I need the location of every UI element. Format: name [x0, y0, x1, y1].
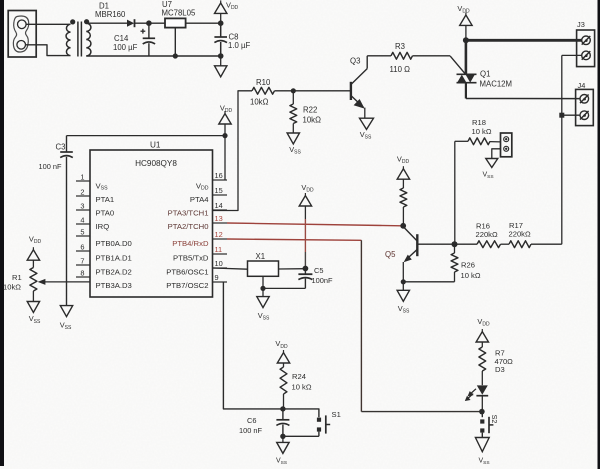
svg-text:10: 10	[215, 259, 223, 268]
svg-text:R16: R16	[476, 221, 490, 230]
svg-text:R10: R10	[256, 78, 271, 87]
J4 pin1 terminal	[580, 95, 589, 104]
label R18	[472, 118, 486, 127]
svg-text:9: 9	[215, 273, 219, 282]
AC power plug connector	[8, 11, 36, 58]
VDD symbol C5	[299, 193, 311, 219]
svg-text:Q3: Q3	[350, 56, 360, 65]
label Q1	[480, 70, 490, 79]
node VDD C8	[218, 20, 224, 26]
wire R3 to gate	[413, 55, 451, 57]
svg-text:PTA2/TCH0: PTA2/TCH0	[168, 222, 209, 231]
wire Q1 to J4 pin1	[466, 98, 580, 100]
transistor Q3	[351, 56, 367, 118]
LED D3	[465, 385, 488, 401]
label VSS Q3	[360, 130, 372, 141]
svg-text:U1: U1	[150, 141, 161, 150]
VDD symbol D3	[476, 329, 488, 347]
VDD symbol top	[215, 0, 227, 23]
label MAC12M	[480, 79, 513, 88]
svg-text:13: 13	[215, 214, 223, 223]
ground R1	[27, 302, 39, 313]
label S2	[490, 415, 499, 424]
wire node to Q3 base	[293, 90, 350, 92]
label Q3	[350, 56, 360, 65]
node R10 R22	[291, 88, 296, 93]
wire header pin2 to ground	[492, 149, 501, 159]
U1 right pin numbers	[215, 171, 223, 282]
ground Q5	[397, 282, 409, 302]
wire J34 net vertical	[561, 55, 563, 244]
label R22	[303, 105, 317, 114]
node C6 bottom	[280, 434, 285, 439]
svg-text:Q1: Q1	[480, 70, 490, 79]
wire R18 to header	[490, 141, 501, 143]
U1 right pin labels	[166, 181, 209, 290]
label 1.0 uF	[228, 41, 250, 50]
svg-text:PTB2A.D2: PTB2A.D2	[96, 268, 132, 277]
transistor Q5	[403, 227, 454, 282]
ground C3	[60, 306, 72, 317]
label D1	[99, 2, 109, 11]
node C8 bottom	[218, 53, 224, 59]
label R17	[509, 221, 523, 230]
ground C6	[277, 436, 289, 453]
wire bottom rail	[86, 55, 220, 57]
svg-text:R3: R3	[395, 42, 405, 51]
resistor R17	[509, 241, 531, 248]
resistor R22	[290, 104, 297, 124]
ground X1	[257, 288, 269, 307]
potentiometer R1 element	[30, 268, 37, 292]
svg-text:7: 7	[80, 256, 84, 265]
svg-text:R1: R1	[12, 273, 22, 282]
label R3	[395, 42, 405, 51]
svg-text:10 kΩ: 10 kΩ	[472, 127, 492, 136]
label 100nF C3	[39, 162, 62, 171]
svg-text:4: 4	[80, 215, 84, 224]
label MBR160	[95, 10, 126, 19]
label J3	[577, 20, 585, 29]
wire Q3 collector to R3	[367, 55, 391, 57]
label U1	[150, 141, 161, 150]
svg-text:220kΩ: 220kΩ	[509, 230, 531, 239]
label U7	[162, 0, 172, 9]
svg-text:D3: D3	[495, 365, 505, 374]
svg-text:12: 12	[215, 230, 223, 239]
svg-text:11: 11	[215, 245, 223, 254]
node Q5 collector	[400, 223, 406, 229]
svg-text:100nF: 100nF	[312, 276, 333, 285]
svg-text:3: 3	[80, 201, 84, 210]
wire R7 to D3	[481, 371, 483, 385]
svg-text:5: 5	[80, 227, 84, 236]
ground S2	[475, 438, 489, 452]
wire pin12 net to D3 node	[361, 411, 481, 413]
label R16	[476, 221, 490, 230]
label VDD mid	[220, 103, 233, 114]
label 10k R10	[250, 98, 269, 107]
header 2-pin	[501, 133, 512, 157]
svg-text:110 Ω: 110 Ω	[390, 65, 411, 74]
svg-text:MC78L05: MC78L05	[162, 9, 196, 18]
svg-text:PTB7/OSC2: PTB7/OSC2	[166, 281, 208, 290]
svg-text:HC908QY8: HC908QY8	[135, 159, 177, 168]
red wire pin12	[227, 239, 361, 240]
svg-text:100 nF: 100 nF	[239, 426, 262, 435]
R1 wiper to pin8	[38, 279, 90, 285]
J3 pin1 terminal	[582, 36, 591, 45]
label C14	[114, 34, 129, 43]
label VSS C6	[276, 457, 287, 466]
svg-text:X1: X1	[256, 252, 266, 261]
wire base node up	[454, 141, 456, 244]
label 100 uF	[113, 43, 138, 52]
label 10k R24	[292, 382, 312, 391]
capacitor C6	[276, 409, 289, 436]
node J4 pin2 junction	[559, 113, 564, 118]
label 470 ohm	[495, 357, 514, 366]
node D3 S2	[479, 409, 485, 415]
svg-text:10 kΩ: 10 kΩ	[292, 382, 312, 391]
label X1	[256, 252, 266, 261]
wire R10 to node	[275, 90, 294, 92]
svg-text:PTB5/TxD: PTB5/TxD	[173, 254, 209, 263]
resistor R3	[391, 52, 413, 59]
svg-text:PTB1A.D1: PTB1A.D1	[96, 254, 132, 263]
regulator U7 box	[165, 18, 186, 27]
wire R17 to J34 net	[531, 243, 562, 245]
label R26	[461, 260, 475, 269]
label 10k R18	[472, 127, 492, 136]
wire node to R22	[292, 91, 294, 104]
label VSS S2	[478, 457, 489, 466]
label VSS C3	[60, 321, 72, 332]
connector J4 box	[576, 89, 594, 125]
svg-text:220kΩ: 220kΩ	[476, 230, 498, 239]
svg-text:10kΩ: 10kΩ	[303, 116, 322, 125]
node C14 top	[146, 20, 152, 26]
svg-text:R18: R18	[472, 118, 486, 127]
resistor R25 pullup	[400, 188, 407, 207]
VDD symbol Q5	[397, 166, 409, 188]
label S1	[332, 410, 341, 419]
transformer	[66, 19, 91, 56]
label VSS Q5	[398, 304, 410, 315]
label VDD R1	[29, 235, 42, 246]
label VDD D3	[477, 317, 490, 328]
VDD symbol top right	[460, 12, 472, 40]
label 220k R16	[476, 230, 498, 239]
svg-text:Q5: Q5	[385, 250, 396, 259]
J3 pin2 terminal	[582, 51, 591, 60]
label 10k R22	[303, 116, 322, 125]
node VDD J3	[463, 37, 469, 43]
svg-text:100 nF: 100 nF	[39, 162, 62, 171]
wire R22 to ground	[292, 124, 294, 134]
wire D1 to U7	[135, 22, 166, 24]
label 100nF C5	[312, 276, 333, 285]
capacitor C3	[60, 136, 73, 306]
resistor R7	[479, 347, 486, 371]
label Q5	[385, 250, 396, 259]
wire X1 right to C5 node	[279, 268, 306, 270]
svg-text:C6: C6	[247, 416, 256, 425]
node C5 top	[303, 266, 309, 272]
svg-text:J3: J3	[577, 20, 585, 29]
svg-text:PTB6/OSC1: PTB6/OSC1	[166, 268, 208, 277]
node U7 ground	[173, 53, 178, 58]
wire X1 node to C5 bottom	[263, 287, 305, 289]
ground under C8	[215, 56, 227, 77]
triac Q1	[457, 74, 477, 98]
svg-text:1: 1	[80, 172, 84, 181]
connector J3 box	[577, 30, 595, 67]
svg-text:PTA3/TCH1: PTA3/TCH1	[168, 208, 209, 217]
switch S2	[480, 412, 493, 438]
wire D3 to node	[481, 396, 483, 412]
resonator X1 box	[248, 261, 279, 276]
wire pin14 to R10	[213, 91, 252, 211]
U1 left pin numbers	[80, 172, 84, 277]
wire VDD-C5 red segment	[304, 219, 306, 252]
label 100nF C6	[239, 426, 262, 435]
ground R22	[287, 133, 299, 144]
red wire pin13 to Q5	[227, 223, 402, 226]
node Q5 emitter	[401, 279, 406, 284]
node R24 C6	[280, 406, 285, 411]
svg-text:14: 14	[215, 201, 223, 210]
U7 ground pin wire	[174, 28, 176, 56]
wire X1 bottom	[262, 276, 264, 288]
wire to R18	[455, 140, 468, 142]
wire plug top to transformer	[26, 23, 69, 25]
svg-text:R26: R26	[461, 260, 475, 269]
label VSS header	[482, 172, 493, 181]
label HC908QY8	[135, 159, 177, 168]
wire pin9 down	[223, 282, 283, 409]
svg-text:MAC12M: MAC12M	[480, 79, 513, 88]
label 10k R26	[461, 271, 481, 280]
J4 pin2 terminal	[580, 111, 589, 120]
svg-text:PTB3A.D3: PTB3A.D3	[96, 281, 132, 290]
wire emitter to R26	[403, 281, 454, 283]
label 10k R1	[3, 282, 21, 291]
ground Q3 emitter	[360, 118, 374, 129]
label VSS X1	[258, 311, 270, 322]
svg-text:PTA4: PTA4	[190, 195, 209, 204]
svg-text:10kΩ: 10kΩ	[3, 282, 21, 291]
svg-text:15: 15	[215, 186, 223, 195]
label VDD C5	[301, 183, 314, 194]
IC U1 box	[90, 150, 213, 297]
wire pin12 net down	[360, 240, 362, 411]
label 110 ohm	[390, 65, 411, 74]
label R10	[256, 78, 271, 87]
svg-text:C14: C14	[114, 34, 129, 43]
svg-text:C5: C5	[314, 266, 323, 275]
label C6	[247, 416, 256, 425]
resistor R10	[252, 87, 275, 94]
label VSS R1	[29, 314, 41, 325]
wire J4 pin2	[562, 114, 580, 116]
U1 left pin labels	[96, 181, 132, 290]
node VDD pin16	[222, 133, 227, 138]
capacitor C14	[141, 23, 156, 56]
label VDD Q5	[397, 155, 410, 166]
wire VDD to pin16	[224, 136, 226, 180]
label D3	[495, 365, 505, 374]
wire R24 to node	[283, 394, 285, 409]
resistor R18	[468, 138, 490, 145]
svg-text:1.0 µF: 1.0 µF	[228, 41, 250, 50]
label R7	[495, 349, 505, 358]
wire VDD to J3 pin1	[466, 39, 582, 42]
svg-text:100 µF: 100 µF	[113, 43, 138, 52]
svg-text:2: 2	[80, 187, 84, 196]
svg-text:PTB0A.D0: PTB0A.D0	[96, 239, 132, 248]
left black border bar	[0, 0, 4, 466]
label C3	[56, 143, 66, 152]
ground header	[486, 159, 498, 168]
wire R1 to ground	[32, 291, 34, 302]
label J4	[578, 81, 586, 90]
resistor R26	[451, 253, 458, 272]
wire plug bottom to transformer	[26, 45, 70, 56]
right black border bar	[598, 0, 600, 469]
svg-text:R22: R22	[303, 105, 317, 114]
label VDD top	[226, 1, 239, 12]
resistor R16	[477, 241, 501, 248]
svg-text:PTB4/RxD: PTB4/RxD	[172, 239, 209, 248]
VDD symbol R24	[277, 350, 289, 367]
svg-text:R17: R17	[509, 221, 523, 230]
svg-text:8: 8	[80, 268, 84, 277]
label R1	[12, 273, 22, 282]
wire pullup to Q5	[402, 207, 404, 225]
VDD symbol mid	[219, 111, 231, 136]
wire base node to R26	[454, 244, 456, 253]
U1 right pin stubs	[213, 180, 228, 282]
label C8	[229, 33, 239, 42]
node Q5 base	[452, 241, 458, 247]
label 220k R17	[509, 230, 531, 239]
VDD symbol R1	[27, 247, 39, 267]
svg-text:S1: S1	[332, 410, 341, 419]
wire VDD to triac	[465, 40, 468, 74]
wire node to R16	[455, 243, 478, 245]
wire R16 to R17	[501, 243, 510, 245]
wire R26 bottom	[454, 272, 456, 282]
capacitor C5	[298, 269, 312, 289]
wire J3 pin2	[562, 54, 582, 56]
svg-text:10kΩ: 10kΩ	[250, 98, 269, 107]
capacitor C8	[214, 23, 227, 56]
svg-text:MBR160: MBR160	[95, 10, 126, 19]
svg-text:6: 6	[80, 242, 84, 251]
svg-text:PTA0: PTA0	[96, 208, 115, 217]
label VDD R24	[275, 339, 288, 350]
wire U7 out to VDD node	[186, 22, 221, 24]
svg-text:R24: R24	[292, 372, 306, 381]
svg-text:10 kΩ: 10 kΩ	[461, 271, 481, 280]
wire VDD to C3	[67, 135, 226, 137]
resistor R24	[280, 367, 287, 394]
label R24	[292, 372, 306, 381]
svg-text:C3: C3	[56, 143, 66, 152]
svg-text:IRQ: IRQ	[96, 222, 110, 231]
svg-text:16: 16	[215, 171, 223, 180]
label VSS R22	[289, 145, 301, 156]
wire VDD-C5 lower segment	[304, 252, 306, 269]
label VDD top right	[457, 4, 470, 15]
wire Q1 gate	[450, 56, 465, 74]
svg-text:S2: S2	[490, 415, 499, 424]
node X1 ground	[260, 286, 265, 291]
svg-text:PTA1: PTA1	[96, 195, 115, 204]
switch S1	[283, 409, 330, 436]
U1 left pin stubs	[76, 181, 90, 277]
wire pin10 to X1	[213, 268, 248, 269]
label MC78L05	[162, 9, 196, 18]
label C5	[314, 266, 323, 275]
diode D1	[127, 19, 135, 27]
wire transformer to diode D1	[86, 22, 127, 24]
